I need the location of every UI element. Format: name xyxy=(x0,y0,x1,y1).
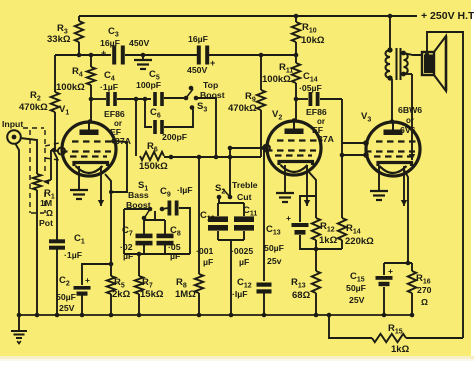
wire input to pot xyxy=(20,138,37,174)
wire V1 cathode column xyxy=(105,174,111,276)
node V1 anode junction xyxy=(89,97,94,102)
svg-text:25V: 25V xyxy=(59,303,75,313)
svg-text:6BW6: 6BW6 xyxy=(398,105,422,115)
svg-text:Top: Top xyxy=(203,80,218,90)
wire V2 cathode column xyxy=(308,171,316,218)
capacitor C11 0.0025uF xyxy=(234,216,254,222)
heater arrow V2 xyxy=(306,165,308,206)
node V1 anode top xyxy=(88,119,93,124)
resistor R6 150k xyxy=(140,152,164,160)
svg-text:EF86: EF86 xyxy=(104,109,125,119)
svg-text:100kΩ: 100kΩ xyxy=(56,82,85,93)
input jack xyxy=(7,130,21,144)
svg-text:450V: 450V xyxy=(187,65,207,75)
speaker xyxy=(422,52,434,75)
svg-text:Input: Input xyxy=(2,119,23,129)
resistor R16 270 ohm xyxy=(411,263,413,271)
svg-text:·1µF: ·1µF xyxy=(100,82,118,92)
svg-text:·0025: ·0025 xyxy=(231,246,253,256)
resistor R15 1k feedback xyxy=(329,315,372,338)
resistor R10 10k xyxy=(295,16,297,22)
capacitor C3 16uF 450V xyxy=(112,46,116,65)
resistor R7 15k xyxy=(138,254,140,276)
capacitor C10 0.001uF xyxy=(208,216,228,222)
node HT-transformer junction xyxy=(388,14,393,19)
resistor R14 220k xyxy=(341,155,343,218)
shield dashed screen xyxy=(29,130,31,213)
wire C14 to V3 grid xyxy=(342,99,364,143)
switch S1 bass boost xyxy=(124,208,150,210)
svg-text:1MΩ: 1MΩ xyxy=(175,289,196,300)
capacitor C8 0.05uF xyxy=(164,220,166,234)
vacuum tube V1 EF86 xyxy=(62,122,116,176)
node V2 anode junction xyxy=(294,97,299,102)
wire treble caps xyxy=(218,197,220,203)
capacitor C1 0.1uF xyxy=(54,152,57,240)
node C5 left junctions xyxy=(134,97,139,102)
svg-text:+: + xyxy=(85,275,90,285)
capacitor C2 50uF 25V xyxy=(74,286,91,290)
svg-text:6V6: 6V6 xyxy=(400,125,416,135)
svg-text:470kΩ: 470kΩ xyxy=(228,103,257,114)
svg-text:1M: 1M xyxy=(40,198,52,208)
potentiometer R1 1M xyxy=(33,174,41,190)
svg-text:1kΩ: 1kΩ xyxy=(391,344,410,355)
svg-text:220kΩ: 220kΩ xyxy=(345,236,374,247)
wire V2 grid line xyxy=(230,147,266,149)
capacitor 16uF 450V (second smoothing) xyxy=(197,46,201,65)
svg-text:Ω: Ω xyxy=(421,297,428,307)
svg-text:Pot: Pot xyxy=(39,218,53,228)
vacuum tube V3 6BW6 xyxy=(366,122,420,176)
svg-text:68Ω: 68Ω xyxy=(292,290,311,301)
capacitor C9 0.1uF xyxy=(162,208,168,209)
svg-text:Ω: Ω xyxy=(46,208,53,218)
wire V1 screen to cathode loop xyxy=(111,141,127,192)
svg-text:µF: µF xyxy=(239,257,249,267)
ground V1 xyxy=(78,166,80,190)
wire secondary to speaker xyxy=(404,53,423,55)
svg-text:·001: ·001 xyxy=(196,246,214,256)
svg-text:470kΩ: 470kΩ xyxy=(19,102,48,113)
node R4 top junction xyxy=(89,53,94,58)
capacitor C7 0.02uF xyxy=(143,220,145,234)
node R3 bottom junction xyxy=(77,53,82,58)
capacitor C5 100pF xyxy=(153,92,157,106)
svg-text:Bass: Bass xyxy=(128,190,149,200)
wire tone bus y157 xyxy=(164,156,261,158)
vacuum tube V2 EF86 xyxy=(267,121,321,175)
transformer output xyxy=(386,50,391,78)
svg-text:+: + xyxy=(101,48,106,58)
wire S3 to tone bus xyxy=(196,98,216,157)
wire C2 branch xyxy=(82,264,111,285)
svg-text:·1µF: ·1µF xyxy=(64,250,82,260)
svg-text:50µF: 50µF xyxy=(346,283,366,293)
wire feedback from speaker to R15 xyxy=(425,53,430,58)
svg-text:EF86: EF86 xyxy=(306,107,327,117)
svg-text:Boost: Boost xyxy=(126,200,151,210)
capacitor C14 0.05uF xyxy=(296,98,308,100)
capacitor C12 0.1uF xyxy=(263,148,265,281)
capacitor C13 50uF 25v xyxy=(300,196,316,222)
ground V2 xyxy=(284,165,286,193)
svg-text:50µF: 50µF xyxy=(264,243,284,253)
wire C7 C8 top rail xyxy=(144,219,165,221)
wire jack sleeve down xyxy=(15,143,19,315)
heater arrow V1 xyxy=(100,166,102,206)
ground bus bottom xyxy=(19,314,412,316)
resistor R11 100k xyxy=(292,63,300,83)
switch S3 top boost xyxy=(184,96,189,101)
svg-text:Cut: Cut xyxy=(237,192,252,202)
heater arrow V3 xyxy=(403,166,405,206)
wire R6 feed from C4 line xyxy=(135,99,137,156)
svg-text:25V: 25V xyxy=(349,295,365,305)
svg-text:2kΩ: 2kΩ xyxy=(112,289,131,300)
svg-text:µF: µF xyxy=(203,257,213,267)
svg-text:150kΩ: 150kΩ xyxy=(139,161,168,172)
svg-text:·IµF: ·IµF xyxy=(177,185,193,195)
svg-text:Treble: Treble xyxy=(232,180,258,190)
ground V3 xyxy=(378,166,380,191)
node V1 grid cap xyxy=(58,147,65,154)
svg-text:+ 250V H.T.: + 250V H.T. xyxy=(421,10,474,22)
wire HT rail +250V xyxy=(79,15,417,17)
resistor R4 100k xyxy=(87,67,95,85)
resistor R5 2k xyxy=(107,276,115,294)
svg-text:+: + xyxy=(210,58,215,68)
capacitor C15 50uF 25V xyxy=(383,263,385,275)
switch S2 treble cut xyxy=(229,148,231,197)
capacitor C6 200pF xyxy=(145,99,152,127)
earth ground symbol xyxy=(18,315,20,331)
svg-text:270: 270 xyxy=(417,285,432,295)
svg-text:10kΩ: 10kΩ xyxy=(301,35,325,46)
svg-text:16µF: 16µF xyxy=(100,38,120,48)
svg-text:1kΩ: 1kΩ xyxy=(319,235,338,246)
svg-text:16µF: 16µF xyxy=(188,34,208,44)
wire anode to C4 xyxy=(91,98,106,100)
ground below C3 xyxy=(142,55,144,60)
svg-text:200pF: 200pF xyxy=(162,132,187,142)
svg-text:50µF: 50µF xyxy=(56,292,76,302)
svg-text:25v: 25v xyxy=(267,256,282,266)
wire grid junction V1 xyxy=(52,148,57,153)
resistor R12 1k xyxy=(312,218,320,240)
node HT-R10 junction xyxy=(294,14,299,19)
wire y55 supply line xyxy=(55,54,111,56)
svg-text:15kΩ: 15kΩ xyxy=(140,289,164,300)
svg-text:+: + xyxy=(286,213,291,223)
svg-text:37A: 37A xyxy=(318,134,335,144)
wire V3 anode to transformer xyxy=(391,79,393,121)
capacitor C4 0.1uF xyxy=(106,92,110,106)
resistor R3 xyxy=(75,21,83,42)
resistor R9 470k xyxy=(260,55,262,90)
svg-text:100pF: 100pF xyxy=(136,80,161,90)
resistor R8 1M xyxy=(198,157,200,274)
wire box bottom xyxy=(124,253,190,255)
svg-text:·IµF: ·IµF xyxy=(232,289,248,299)
wire secondary return arrow xyxy=(411,74,413,160)
svg-text:+: + xyxy=(388,266,393,276)
svg-text:µF: µF xyxy=(123,251,133,261)
svg-text:33kΩ: 33kΩ xyxy=(47,34,71,45)
wire V3 cathode xyxy=(404,170,408,263)
svg-text:100kΩ: 100kΩ xyxy=(262,74,291,85)
svg-text:450V: 450V xyxy=(129,38,149,48)
wire treble bottom to bus xyxy=(218,239,244,241)
svg-text:·05µF: ·05µF xyxy=(299,83,322,93)
svg-text:µF: µF xyxy=(170,251,180,261)
resistor R2 470k xyxy=(54,55,56,92)
resistor R13 68 ohm xyxy=(315,249,317,271)
